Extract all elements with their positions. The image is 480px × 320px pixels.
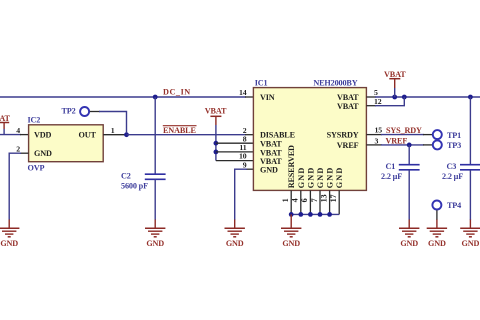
pin number 4 [16,126,20,135]
value 2.2 uF (C1) [381,172,402,181]
pin label VDD [34,131,52,140]
svg-text:5: 5 [374,88,378,97]
svg-text:OUT: OUT [79,131,97,140]
wire IC2 GND to ground [9,153,21,220]
node VBAT junction pin 8 [214,141,219,146]
ic IC1 box [253,88,366,191]
pin label GND (IC2) [34,149,52,158]
svg-text:GND: GND [462,239,480,248]
pin number 9 [243,160,247,169]
net label ENABLE (with overline) [163,126,197,136]
svg-text:SYS_RDY: SYS_RDY [386,126,422,135]
pin label VBAT (right row2) [337,102,359,111]
svg-text:12: 12 [374,97,382,106]
pin stub IC2 pin 2 [20,152,29,154]
svg-text:VBAT: VBAT [384,70,406,79]
svg-text:C2: C2 [121,171,131,180]
pin number 15 [375,125,383,134]
svg-text:VBAT: VBAT [337,93,359,102]
power symbol VBAT (middle) [205,107,227,126]
wire TP4 to ground [436,210,438,220]
value 2.2 uF (C3) [442,172,463,181]
svg-text:11: 11 [239,143,246,152]
ground GND (IC2) [0,220,19,248]
svg-text:4: 4 [291,198,300,202]
wire ENABLE net [127,134,247,136]
pin stub IC1 pin 11 [216,151,254,153]
pin label GND vertical 4 [326,167,335,189]
svg-text:GND: GND [34,149,52,158]
svg-text:TP2: TP2 [62,106,76,115]
svg-text:GND: GND [282,239,300,248]
svg-text:IC2: IC2 [28,116,41,125]
pin label GND (IC1 left) [260,166,278,175]
svg-text:VREF: VREF [337,141,359,150]
pin label GND vertical 3 [316,167,325,189]
pin number 2 (IC1) [243,126,247,135]
node GND bus junction x=291.2 [289,212,294,217]
svg-text:VIN: VIN [260,93,275,102]
pin number 11 [239,143,246,152]
pin stub IC1 pin 10 [216,160,254,162]
net label VREF [386,137,408,146]
svg-text:VBAT: VBAT [260,140,282,149]
svg-text:GND: GND [0,239,18,248]
pin stub TP2 [90,111,100,113]
pin label VBAT (left row1) [260,140,282,149]
node VBAT junction (supply drop) [392,95,397,100]
pin label SYSRDY [327,131,359,140]
svg-text:VDD: VDD [34,131,52,140]
svg-text:17: 17 [329,194,338,202]
svg-text:6: 6 [300,198,309,202]
pin number 1 (rotated) [281,198,290,202]
svg-text:VBAT: VBAT [260,148,282,157]
svg-text:GND: GND [226,239,244,248]
capacitor C3 [460,165,480,170]
pin label GND vertical 5 [335,167,344,189]
svg-text:GND: GND [316,167,325,189]
wire VBAT symbol to net [394,88,396,97]
label C2 [121,171,131,180]
ground GND (TP4) [427,220,447,248]
pin number 17 (rotated) [329,194,338,202]
pin stub IC1 pin 2 [245,134,254,136]
svg-text:GND: GND [335,167,344,189]
svg-text:GND: GND [297,167,306,189]
svg-text:IC1: IC1 [255,78,268,87]
label C3 [447,162,457,171]
wire pin 12 up to VBAT net [375,97,404,106]
pin stub IC1 bottom pin 4 [300,190,302,214]
svg-text:OVP: OVP [28,163,45,172]
svg-text:13: 13 [319,194,328,202]
label IC1 [255,78,268,87]
label IC2 [28,116,41,125]
svg-text:GND: GND [146,239,164,248]
pin number 10 [239,152,247,161]
svg-text:14: 14 [239,88,247,97]
capacitor C1 [399,165,420,170]
ground GND (C3) [460,220,480,248]
pin number 4 (rotated) [291,198,300,202]
pin stub TP3 [423,144,433,146]
pin label DISABLE [260,131,296,140]
wire C3 to ground [469,170,471,220]
pin stub IC1 bottom pin 6 [309,190,311,214]
svg-text:1: 1 [111,126,115,135]
pin stub IC1 bottom pin 13 [329,190,331,214]
svg-text:GND: GND [428,239,446,248]
node VBAT junction (C3 branch) [468,95,473,100]
ground GND (pin 9) [225,220,245,248]
svg-text:SYSRDY: SYSRDY [327,131,359,140]
pin label RESERVED (vertical) [287,145,296,188]
svg-text:3: 3 [375,136,379,145]
pin stub IC1 pin 12 [366,105,376,107]
ground GND (C1) [399,220,419,248]
svg-text:C1: C1 [386,162,396,171]
node GND bus junction x=300.8 [298,212,303,217]
svg-text:VBAT: VBAT [337,102,359,111]
pin stub IC1 bottom pin 1 [290,190,292,214]
wire bus to ground [290,214,292,220]
pin stub IC2 pin 4 [20,134,29,136]
svg-text:4: 4 [16,126,20,135]
svg-text:GND: GND [326,167,335,189]
node GND bus junction x=329.6 [327,212,332,217]
pin stub IC2 pin 1 OUT [103,134,126,136]
svg-text:DISABLE: DISABLE [260,131,296,140]
wire VBAT down to C3 [469,97,471,165]
pin label VBAT (left row2) [260,148,282,157]
node VBAT junction pin 11 [214,150,219,155]
svg-text:DC_IN: DC_IN [163,87,191,96]
svg-text:1: 1 [281,198,290,202]
pin stub IC1 pin 8 [216,142,254,144]
wire DC_IN down to C2 [154,97,156,174]
testpoint TP3 [433,140,461,150]
pin stub TP1 [423,134,433,136]
pin number 5 [374,88,378,97]
net label SYS_RDY [386,126,422,135]
svg-text:ENABLE: ENABLE [163,126,196,135]
svg-text:GND: GND [306,167,315,189]
pin number 2 [16,144,20,153]
pin number 13 (rotated) [319,194,328,202]
testpoint TP1 [433,130,461,140]
pin number 12 [374,97,382,106]
pin number 1 (IC2) [111,126,115,135]
pin stub IC1 pin 14 [245,96,254,98]
pin stub IC1 bottom pin 7 [319,190,321,214]
pin label OUT [79,131,97,140]
svg-text:VBAT: VBAT [260,157,282,166]
wire VBAT net (top right) [375,96,480,98]
wire C2 to ground [154,179,156,220]
svg-text:2.2 µF: 2.2 µF [381,172,402,181]
svg-text:VREF: VREF [386,137,408,146]
svg-text:GND: GND [260,166,278,175]
wire VREF down to C1 [408,145,410,165]
ground GND (IC1 bottom) [281,220,301,248]
svg-text:VBAT: VBAT [205,107,227,116]
pin stub IC1 pin 5 [366,96,376,98]
pin label GND vertical 2 [306,167,315,189]
wire VBAT to IC1 VBAT pins [215,125,217,161]
label OVP (IC2 value) [28,163,45,172]
wire DC_IN net (top horizontal) [0,96,246,98]
node VREF junction at C1 [407,143,412,148]
power symbol VBAT (left edge) [0,114,10,129]
testpoint TP4 [432,201,461,211]
pin number 7 (rotated) [310,198,319,202]
svg-text:RESERVED: RESERVED [287,145,296,188]
node GND bus junction x=320.0 [318,212,323,217]
wire SYS_RDY net [381,134,424,136]
pin number 6 (rotated) [300,198,309,202]
pin label VBAT (left row3) [260,157,282,166]
net label DC_IN [163,87,191,96]
node ENABLE junction at TP2 drop [124,132,129,137]
svg-text:TP4: TP4 [447,201,461,210]
wire bottom GND bus [291,213,339,215]
svg-text:9: 9 [243,160,247,169]
node DC_IN junction at C2 branch [153,95,158,100]
pin stub IC1 pin 3 [366,144,382,146]
svg-text:GND: GND [400,239,418,248]
node GND bus junction x=310.4 [308,212,313,217]
svg-text:5600 pF: 5600 pF [121,182,148,191]
pin number 14 [239,88,247,97]
ic IC2 box [29,125,104,162]
power symbol VBAT (top right) [384,70,406,88]
pin label VIN [260,93,275,102]
pin stub IC1 pin 9 [246,168,254,170]
label C1 [386,162,396,171]
svg-text:15: 15 [375,125,383,134]
svg-text:TP1: TP1 [447,131,461,140]
label NEH2000BY [313,78,357,87]
pin number 8 [243,134,247,143]
pin number 3 [375,136,379,145]
pin label GND vertical 1 [297,167,306,189]
svg-text:2.2 µF: 2.2 µF [442,172,463,181]
svg-text:7: 7 [310,198,319,202]
pin label VBAT (right row1) [337,93,359,102]
svg-text:VBAT: VBAT [0,114,10,123]
wire C1 to ground [408,170,410,220]
wire IC1 GND pin 9 to ground [235,169,247,220]
pin label VREF (inside) [337,141,359,150]
testpoint TP2 [62,106,90,116]
wire TP2 to ENABLE net [99,112,127,134]
pin stub IC1 pin 15 [366,134,382,136]
value 5600 pF [121,182,148,191]
ground GND (C2) [145,220,165,248]
svg-text:2: 2 [16,144,20,153]
pin stub IC1 bottom pin 17 [338,190,340,214]
node VBAT junction (pin 12 loop) [402,95,407,100]
wire VREF net [381,144,424,146]
svg-text:TP3: TP3 [447,141,461,150]
svg-text:C3: C3 [447,162,457,171]
svg-text:NEH2000BY: NEH2000BY [313,78,357,87]
wire VBAT to IC2 VDD [0,129,21,135]
capacitor C2 [145,174,166,179]
svg-text:8: 8 [243,134,247,143]
